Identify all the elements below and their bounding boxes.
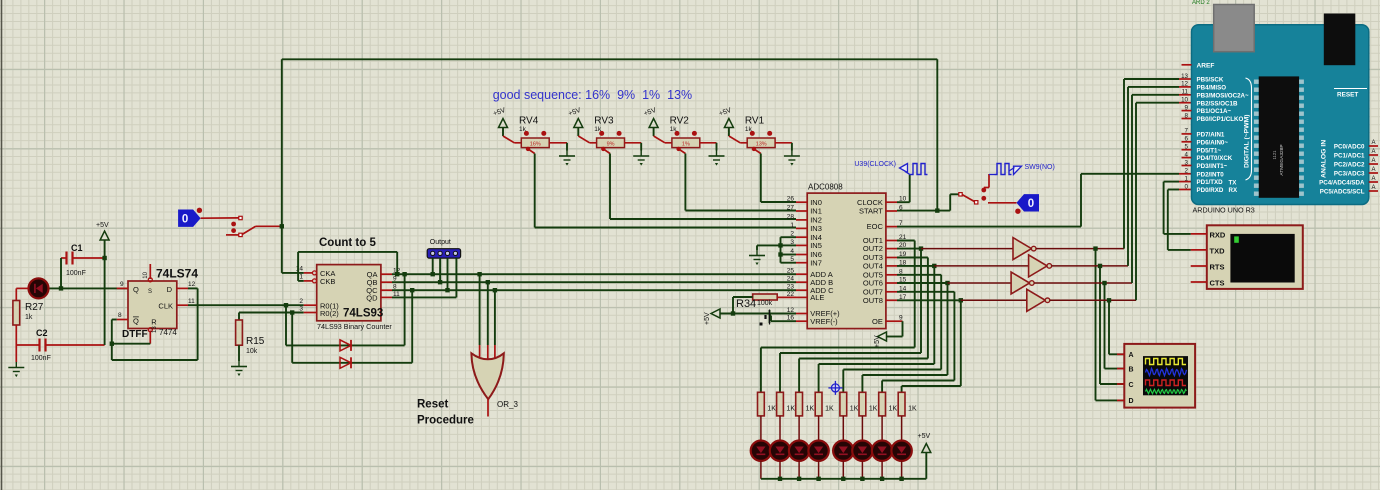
svg-text:AREF: AREF (1197, 62, 1215, 69)
svg-text:13: 13 (1181, 73, 1188, 80)
svg-text:IN3: IN3 (810, 224, 822, 233)
svg-text:OUT4: OUT4 (863, 262, 883, 271)
svg-text:74LS93 Binary Counter: 74LS93 Binary Counter (317, 322, 392, 331)
svg-text:27: 27 (787, 205, 795, 212)
svg-text:IN1: IN1 (810, 207, 822, 216)
svg-text:C: C (1129, 382, 1134, 389)
svg-text:+5V: +5V (704, 312, 711, 325)
svg-text:QD: QD (366, 293, 378, 302)
svg-text:1: 1 (790, 222, 794, 229)
svg-text:TXD: TXD (1210, 246, 1226, 255)
svg-text:IN7: IN7 (810, 258, 822, 267)
svg-text:CLK: CLK (158, 302, 173, 311)
svg-text:R0(2): R0(2) (320, 309, 339, 318)
svg-text:RV4: RV4 (519, 116, 539, 127)
svg-text:PB1/OC1A~: PB1/OC1A~ (1197, 108, 1232, 115)
svg-text:DIGITAL (~PWM): DIGITAL (~PWM) (1244, 114, 1251, 168)
svg-text:1%: 1% (682, 142, 690, 148)
svg-text:R34: R34 (736, 298, 756, 310)
svg-text:PD0/RXD: PD0/RXD (1197, 187, 1224, 194)
svg-text:PC4/ADC4/SDA: PC4/ADC4/SDA (1319, 179, 1365, 186)
svg-text:Q: Q (133, 285, 139, 294)
svg-text:26: 26 (787, 196, 795, 203)
svg-text:PD7/AIN1: PD7/AIN1 (1197, 132, 1225, 139)
svg-text:1K: 1K (787, 406, 796, 413)
svg-text:Reset: Reset (417, 399, 448, 411)
svg-text:0: 0 (1028, 198, 1034, 210)
svg-text:+5V: +5V (874, 335, 881, 348)
svg-text:IN0: IN0 (810, 198, 822, 207)
svg-text:OE: OE (872, 317, 883, 326)
svg-text:OUT6: OUT6 (863, 279, 883, 288)
svg-text:14: 14 (296, 266, 304, 273)
svg-text:RTS: RTS (1210, 262, 1225, 271)
svg-text:CKB: CKB (320, 277, 335, 286)
svg-text:RESET: RESET (1337, 92, 1358, 99)
svg-text:13: 13 (152, 326, 158, 333)
svg-text:0: 0 (182, 214, 188, 226)
svg-text:IN5: IN5 (810, 241, 822, 250)
svg-text:A: A (1372, 176, 1376, 182)
svg-text:+5V: +5V (96, 222, 109, 229)
svg-text:1k: 1k (670, 126, 678, 133)
svg-text:A: A (1372, 167, 1376, 173)
svg-text:25: 25 (787, 268, 795, 275)
svg-text:A: A (1129, 352, 1134, 359)
svg-text:Count to 5: Count to 5 (319, 237, 376, 249)
svg-text:10: 10 (1181, 97, 1188, 104)
svg-text:3: 3 (299, 306, 303, 313)
svg-text:1K: 1K (869, 406, 878, 413)
svg-text:74LS93: 74LS93 (343, 308, 383, 320)
svg-text:74LS74: 74LS74 (156, 267, 198, 281)
svg-text:Output: Output (430, 239, 451, 246)
svg-text:PD2/INT0: PD2/INT0 (1197, 171, 1225, 178)
svg-text:RX: RX (1229, 187, 1238, 194)
svg-text:A: A (1372, 185, 1376, 191)
svg-text:11: 11 (1182, 89, 1189, 96)
svg-text:Q: Q (133, 317, 139, 326)
svg-text:11: 11 (188, 298, 195, 305)
svg-text:1K: 1K (825, 406, 834, 413)
svg-text:SW9(NO): SW9(NO) (1025, 164, 1055, 171)
svg-text:1K: 1K (767, 406, 776, 413)
svg-text:1k: 1k (745, 126, 753, 133)
svg-text:PD3/INT1~: PD3/INT1~ (1197, 163, 1228, 170)
svg-text:RV1: RV1 (745, 116, 765, 127)
svg-text:PB4/MISO: PB4/MISO (1197, 85, 1227, 92)
svg-text:S: S (148, 289, 152, 295)
svg-text:1k: 1k (25, 314, 33, 321)
svg-text:0: 0 (1185, 183, 1189, 190)
svg-text:DTFF: DTFF (122, 329, 148, 340)
svg-text:OUT2: OUT2 (863, 244, 883, 253)
svg-text:+5V: +5V (918, 433, 931, 440)
svg-text:D: D (1129, 398, 1134, 405)
svg-text:23: 23 (787, 284, 795, 291)
svg-text:PD4/T0/XCK: PD4/T0/XCK (1197, 155, 1233, 162)
svg-text:PD1/TXD: PD1/TXD (1197, 179, 1224, 186)
svg-text:PB0/ICP1/CLKO: PB0/ICP1/CLKO (1197, 116, 1244, 123)
svg-text:VREF(-): VREF(-) (810, 317, 838, 326)
svg-text:PC2/ADC2: PC2/ADC2 (1334, 161, 1365, 168)
svg-text:A: A (1372, 140, 1376, 146)
svg-text:PD6/AIN0~: PD6/AIN0~ (1197, 139, 1229, 146)
svg-text:1k: 1k (594, 126, 602, 133)
svg-text:12: 12 (188, 281, 196, 288)
svg-text:100k: 100k (757, 300, 773, 307)
svg-text:PC0/ADC0: PC0/ADC0 (1334, 143, 1365, 150)
svg-text:CLOCK: CLOCK (857, 198, 883, 207)
svg-text:9: 9 (120, 281, 124, 288)
svg-text:1K: 1K (806, 406, 815, 413)
svg-text:RV2: RV2 (670, 116, 690, 127)
svg-text:PD5/T1~: PD5/T1~ (1197, 147, 1222, 154)
svg-text:PB5/SCK: PB5/SCK (1197, 77, 1224, 84)
svg-text:EOC: EOC (867, 222, 884, 231)
svg-text:PC3/ADC3: PC3/ADC3 (1334, 170, 1365, 177)
svg-text:U39(CLOCK): U39(CLOCK) (854, 161, 896, 168)
svg-text:R27: R27 (25, 302, 44, 313)
svg-text:1K: 1K (889, 406, 898, 413)
svg-text:2: 2 (299, 298, 303, 305)
svg-text:RXD: RXD (1210, 230, 1226, 239)
svg-text:ARDUINO UNO R3: ARDUINO UNO R3 (1193, 206, 1255, 215)
svg-text:CTS: CTS (1210, 278, 1225, 287)
svg-text:12: 12 (1181, 81, 1188, 88)
svg-text:100nF: 100nF (31, 355, 51, 362)
svg-text:28: 28 (787, 213, 795, 220)
svg-text:R15: R15 (246, 336, 265, 347)
svg-text:100nF: 100nF (66, 270, 86, 277)
svg-text:16%: 16% (530, 142, 541, 148)
svg-text:OUT8: OUT8 (863, 296, 883, 305)
svg-text:10: 10 (143, 271, 149, 278)
svg-text:ANALOG IN: ANALOG IN (1321, 140, 1328, 178)
svg-text:START: START (859, 207, 883, 216)
svg-text:good sequence: 16% 9% 1% 13: good sequence: 16% 9% 1% 13% (493, 88, 692, 102)
svg-text:TX: TX (1229, 179, 1238, 186)
svg-text:1: 1 (1185, 175, 1189, 182)
svg-text:A: A (1372, 149, 1376, 155)
svg-text:ADC0808: ADC0808 (808, 183, 843, 192)
svg-text:24: 24 (787, 276, 795, 283)
svg-text:13%: 13% (756, 142, 767, 148)
svg-text:1: 1 (299, 274, 303, 281)
svg-text:7474: 7474 (159, 328, 177, 337)
svg-text:1K: 1K (908, 406, 917, 413)
svg-text:9%: 9% (607, 142, 615, 148)
svg-text:2: 2 (1185, 168, 1189, 175)
svg-text:PB3/MOSI/OC2A~: PB3/MOSI/OC2A~ (1197, 92, 1249, 99)
svg-text:8: 8 (118, 312, 122, 319)
svg-text:1K: 1K (850, 406, 859, 413)
svg-text:ALE: ALE (810, 293, 824, 302)
svg-text:ATMEGA328P: ATMEGA328P (1279, 144, 1285, 175)
svg-text:10k: 10k (246, 348, 258, 355)
svg-text:Procedure: Procedure (417, 415, 474, 427)
svg-text:ARD 2: ARD 2 (1192, 0, 1210, 6)
svg-text:PC5/ADC5/SCL: PC5/ADC5/SCL (1320, 188, 1365, 195)
svg-text:1121: 1121 (1272, 150, 1277, 160)
svg-text:1k: 1k (519, 126, 527, 133)
svg-text:PC1/ADC1: PC1/ADC1 (1334, 152, 1365, 159)
svg-text:PB2/SS/OC1B: PB2/SS/OC1B (1197, 100, 1238, 107)
svg-text:RV3: RV3 (594, 116, 614, 127)
svg-text:C1: C1 (71, 243, 83, 253)
svg-text:OR_3: OR_3 (497, 400, 518, 409)
svg-text:C2: C2 (36, 328, 48, 338)
svg-text:B: B (1129, 366, 1134, 373)
svg-text:A: A (1372, 158, 1376, 164)
svg-text:D: D (167, 285, 173, 294)
svg-text:R: R (151, 318, 157, 327)
